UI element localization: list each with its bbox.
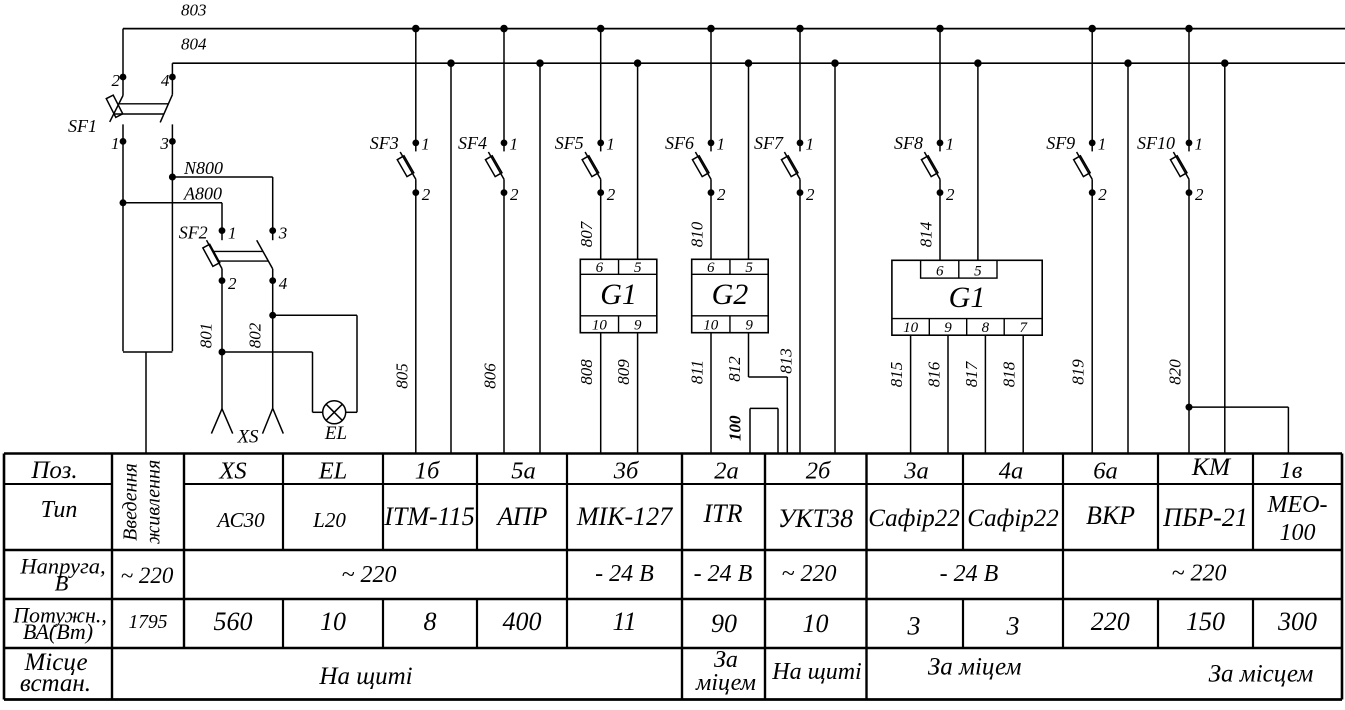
svg-text:~ 220: ~ 220 [782, 561, 837, 587]
svg-text:SF1: SF1 [68, 116, 97, 136]
svg-text:820: 820 [1166, 359, 1185, 385]
svg-text:SF10: SF10 [1137, 133, 1175, 153]
wire A800 [123, 203, 222, 231]
svg-text:G2: G2 [712, 278, 749, 311]
svg-text:SF9: SF9 [1046, 133, 1075, 153]
node SF2 pin 3 [269, 227, 276, 234]
svg-text:9: 9 [944, 320, 952, 336]
svg-text:5а: 5а [511, 458, 536, 485]
circuit breaker SF5 [582, 152, 601, 179]
wire 814 [939, 179, 941, 260]
junction on wire 801 [219, 349, 226, 356]
wire SF1 pole2 feed from 803 [122, 29, 124, 96]
junction bus 804 x637 [634, 59, 642, 67]
svg-text:EL: EL [318, 458, 348, 485]
svg-text:живлення: живлення [143, 460, 165, 545]
circuit breaker SF6 [692, 152, 711, 179]
wire 810 [710, 179, 712, 259]
svg-text:10: 10 [703, 318, 719, 334]
junction bus 803 x600 [597, 25, 605, 33]
svg-text:Сафір22: Сафір22 [868, 505, 960, 532]
wire 819 [1091, 179, 1093, 453]
junction bus 804 x835 [831, 59, 839, 67]
wire 817 [984, 335, 986, 453]
wire return drop to KM [1224, 63, 1226, 453]
svg-text:801: 801 [197, 323, 216, 349]
svg-text:- 24 В: - 24 В [595, 561, 654, 587]
svg-text:1795: 1795 [129, 612, 168, 633]
svg-text:1: 1 [111, 134, 120, 153]
svg-text:3: 3 [159, 134, 169, 153]
svg-text:6: 6 [707, 260, 715, 276]
svg-text:Введення: Введення [120, 463, 142, 541]
svg-text:814: 814 [917, 221, 936, 247]
wire 805 [415, 179, 417, 453]
svg-text:817: 817 [962, 360, 981, 387]
svg-text:815: 815 [887, 362, 906, 388]
svg-text:ІТМ-115: ІТМ-115 [383, 502, 475, 531]
device G2 box [692, 259, 769, 332]
node SF4 pin 1 [501, 140, 508, 147]
wire return drop to 2b [834, 63, 836, 453]
junction bus 803 x1189 [1185, 25, 1193, 33]
svg-text:10: 10 [903, 320, 919, 336]
svg-text:G1: G1 [600, 278, 637, 311]
circuit breaker SF7 [781, 152, 800, 179]
circuit breaker SF3 [397, 152, 416, 179]
svg-text:2: 2 [1195, 185, 1204, 204]
wire bus 804 [172, 62, 1345, 64]
svg-text:2: 2 [946, 185, 955, 204]
svg-text:За місцем: За місцем [1209, 661, 1314, 688]
svg-text:SF2: SF2 [179, 223, 208, 243]
svg-text:МЕО-: МЕО- [1267, 492, 1328, 518]
svg-text:1: 1 [946, 135, 955, 154]
svg-text:11: 11 [612, 607, 636, 636]
circuit breaker SF8 [921, 152, 940, 179]
junction bus 803 x711 [707, 25, 715, 33]
wire SF5 feed from 803 [600, 29, 602, 152]
svg-text:5: 5 [745, 260, 753, 276]
node SF8 pin 1 [937, 140, 944, 147]
svg-text:2: 2 [1098, 185, 1107, 204]
svg-text:802: 802 [246, 322, 265, 348]
junction bus 803 x800 [796, 25, 804, 33]
wire 809 [637, 333, 639, 454]
junction on wire 802 [269, 312, 276, 319]
wire return drop to 5a [539, 63, 541, 453]
svg-text:ПБР-21: ПБР-21 [1162, 503, 1248, 532]
wire SF9 feed from 803 [1091, 29, 1093, 152]
svg-text:809: 809 [614, 359, 633, 385]
circuit breaker SF9 [1074, 152, 1093, 179]
svg-text:Сафір22: Сафір22 [967, 505, 1059, 532]
svg-text:1: 1 [717, 135, 726, 154]
svg-text:806: 806 [481, 363, 500, 389]
svg-text:810: 810 [688, 221, 707, 247]
circuit breaker SF10 [1170, 152, 1189, 179]
svg-text:2: 2 [422, 185, 431, 204]
svg-text:100: 100 [1280, 520, 1316, 546]
node SF5 pin 2 [597, 189, 604, 196]
svg-text:встан.: встан. [20, 670, 91, 697]
svg-text:560: 560 [214, 607, 253, 636]
svg-text:КМ: КМ [1191, 452, 1232, 481]
svg-text:АПР: АПР [496, 502, 548, 531]
wire 820 [1188, 179, 1190, 453]
svg-text:~ 220: ~ 220 [1172, 561, 1227, 587]
svg-text:4а: 4а [999, 458, 1024, 485]
circuit breaker SF2 [203, 231, 273, 269]
junction bus 804 x540 [536, 59, 544, 67]
svg-text:2: 2 [607, 185, 616, 204]
svg-text:XS: XS [218, 458, 246, 485]
svg-text:G1: G1 [949, 281, 986, 314]
svg-text:4: 4 [279, 274, 288, 293]
table row: power [12, 603, 1317, 645]
junction bus 804 x977 [974, 59, 982, 67]
node SF10 pin 1 [1186, 140, 1193, 147]
svg-text:220: 220 [1091, 607, 1130, 636]
junction bus 804 x451 [447, 59, 455, 67]
wire return drop to 6a [1127, 63, 1129, 453]
wire SF7 feed from 803 [799, 29, 801, 152]
node SF2 pin 2 [219, 277, 226, 284]
svg-text:1: 1 [510, 135, 519, 154]
svg-text:10: 10 [592, 318, 608, 334]
wire SF4 feed from 803 [503, 29, 505, 152]
svg-text:SF8: SF8 [894, 133, 923, 153]
svg-text:ВКР: ВКР [1086, 501, 1135, 530]
svg-text:803: 803 [181, 0, 207, 19]
wire return drop to 1b [450, 63, 452, 453]
svg-text:SF5: SF5 [555, 133, 584, 153]
svg-text:819: 819 [1069, 359, 1088, 385]
node SF6 pin 2 [708, 189, 715, 196]
svg-text:1: 1 [606, 135, 615, 154]
wire 820 branch to MEO [1189, 407, 1288, 453]
svg-text:812: 812 [725, 356, 744, 382]
svg-text:ITR: ITR [703, 499, 743, 528]
svg-text:SF7: SF7 [754, 133, 784, 153]
svg-text:1б: 1б [415, 458, 440, 485]
svg-text:9: 9 [745, 318, 753, 334]
wire 801 branch to lamp [222, 352, 323, 412]
svg-text:1: 1 [1195, 135, 1204, 154]
svg-text:SF6: SF6 [665, 133, 694, 153]
junction bus 804 x1128 [1124, 59, 1132, 67]
svg-text:5: 5 [634, 260, 642, 276]
junction bus 803 x504 [500, 25, 508, 33]
wire 818 [1022, 335, 1024, 453]
svg-text:8: 8 [982, 320, 990, 336]
svg-text:807: 807 [577, 220, 596, 247]
junction bus 804 x748 [745, 59, 753, 67]
svg-text:400: 400 [503, 607, 542, 636]
svg-text:За міцем: За міцем [928, 654, 1022, 681]
node SF7 pin 1 [797, 140, 804, 147]
svg-text:6: 6 [596, 260, 604, 276]
device G1 box [580, 259, 657, 332]
wire N800 [172, 177, 272, 231]
svg-text:Тип: Тип [41, 497, 78, 523]
svg-text:ВА(Вт): ВА(Вт) [23, 619, 93, 644]
wire return drop to G2 pin5 [748, 63, 750, 259]
node SF9 pin 2 [1089, 189, 1096, 196]
node SF5 pin 1 [597, 140, 604, 147]
wire 802 [272, 269, 274, 408]
wire input left drop [122, 124, 124, 351]
svg-text:2: 2 [717, 185, 726, 204]
svg-text:90: 90 [711, 609, 737, 638]
svg-text:В: В [55, 571, 69, 596]
svg-text:2: 2 [510, 185, 519, 204]
svg-text:2: 2 [228, 274, 237, 293]
svg-text:1: 1 [421, 135, 430, 154]
junction bus 803 x940 [936, 25, 944, 33]
wire 802 branch to lamp [273, 315, 357, 412]
wire 806 [503, 179, 505, 453]
svg-text:2а: 2а [714, 458, 739, 485]
svg-text:813: 813 [777, 348, 796, 374]
svg-text:XS: XS [236, 427, 259, 448]
svg-text:6: 6 [936, 263, 944, 279]
svg-text:10: 10 [320, 607, 346, 636]
svg-text:АС30: АС30 [215, 508, 265, 532]
wire 808 [600, 333, 602, 454]
svg-text:150: 150 [1186, 607, 1225, 636]
svg-text:818: 818 [1000, 361, 1019, 387]
node SF3 pin 1 [412, 140, 419, 147]
svg-text:10: 10 [803, 609, 829, 638]
wire SF1 pole4 feed from 804 [171, 63, 173, 94]
wire 811 [710, 333, 712, 454]
node SF8 pin 2 [937, 189, 944, 196]
svg-text:1в: 1в [1280, 457, 1303, 484]
svg-text:9: 9 [634, 318, 642, 334]
table row: position designators [30, 452, 1302, 485]
node SF1 pin 1 [120, 138, 127, 145]
node SF2 pin 1 [219, 227, 226, 234]
svg-text:УКТ38: УКТ38 [778, 504, 853, 533]
svg-text:3а: 3а [903, 458, 929, 485]
svg-text:100: 100 [726, 415, 745, 441]
table row: device types [41, 492, 1328, 546]
junction on wire 820 [1186, 404, 1193, 411]
svg-text:6а: 6а [1093, 458, 1118, 485]
table grid [4, 454, 1342, 700]
node SF6 pin 1 [708, 140, 715, 147]
svg-text:~ 220: ~ 220 [121, 563, 174, 588]
svg-text:1: 1 [1098, 135, 1107, 154]
svg-text:2: 2 [806, 185, 815, 204]
node SF1 pin 4 [169, 74, 176, 81]
wire 801 [221, 269, 223, 409]
node SF7 pin 2 [797, 189, 804, 196]
svg-text:4: 4 [161, 71, 170, 90]
svg-text:МІК-127: МІК-127 [576, 502, 673, 531]
svg-text:5: 5 [974, 263, 982, 279]
wire 807 [600, 179, 602, 259]
junction bus 804 x1224 [1221, 59, 1229, 67]
svg-text:L20: L20 [312, 508, 346, 532]
wire 815 [910, 335, 912, 453]
svg-text:SF4: SF4 [458, 133, 487, 153]
wire input bottom bar [123, 351, 172, 353]
svg-text:1: 1 [806, 135, 815, 154]
circuit breaker SF4 [485, 152, 504, 179]
wire 816 [947, 335, 949, 453]
junction on right drop (N800 tap) [169, 174, 176, 181]
device G1 (Safir) box [892, 260, 1042, 335]
svg-text:805: 805 [392, 363, 411, 389]
svg-text:300: 300 [1277, 607, 1317, 636]
node SF3 pin 2 [412, 189, 419, 196]
svg-text:811: 811 [688, 360, 707, 384]
wire SF10 feed from 803 [1188, 29, 1190, 152]
junction on left drop (A800 tap) [120, 199, 127, 206]
svg-text:2: 2 [112, 71, 121, 90]
connector XS plug b [263, 408, 284, 433]
svg-text:804: 804 [181, 35, 207, 54]
wire return drop to G1 big pin5 [977, 63, 979, 260]
junction bus 803 x415 [412, 25, 420, 33]
svg-text:2б: 2б [806, 458, 831, 485]
node SF1 pin 2 [120, 74, 127, 81]
svg-text:- 24 В: - 24 В [694, 561, 753, 587]
wire SF8 feed from 803 [939, 29, 941, 152]
wire 812 [749, 333, 788, 454]
wire return drop to G1 pin5 [637, 63, 639, 259]
svg-text:1: 1 [228, 224, 237, 243]
circuit breaker SF1 [106, 95, 172, 123]
node SF4 pin 2 [501, 189, 508, 196]
svg-text:3: 3 [278, 224, 288, 243]
svg-text:На щиті: На щиті [771, 659, 861, 685]
node SF10 pin 2 [1186, 189, 1193, 196]
wire SF6 feed from 803 [710, 29, 712, 152]
connector XS plug a [211, 409, 232, 434]
node SF9 pin 1 [1089, 140, 1096, 147]
wire input right drop [171, 124, 173, 351]
table row: voltage [19, 554, 1226, 596]
lamp EL [323, 401, 346, 424]
svg-text:808: 808 [577, 359, 596, 385]
svg-text:міцем: міцем [695, 670, 756, 696]
svg-text:816: 816 [925, 361, 944, 387]
svg-text:EL: EL [324, 423, 347, 444]
svg-text:- 24 В: - 24 В [940, 561, 999, 587]
wire 813 [799, 179, 801, 453]
svg-text:~ 220: ~ 220 [342, 562, 397, 588]
node SF1 pin 3 [169, 138, 176, 145]
svg-text:8: 8 [424, 607, 437, 636]
wire power input feeder to table [145, 352, 147, 454]
table row: mounting place [20, 647, 1313, 697]
junction bus 803 x1092 [1088, 25, 1096, 33]
svg-text:SF3: SF3 [370, 133, 399, 153]
svg-text:Поз.: Поз. [30, 457, 77, 484]
svg-text:A800: A800 [183, 183, 222, 203]
component 100 box [750, 408, 778, 453]
wire bus 803 [123, 28, 1345, 30]
svg-text:3б: 3б [613, 458, 639, 485]
node SF2 pin 4 [269, 277, 276, 284]
svg-text:3: 3 [907, 612, 921, 641]
svg-text:N800: N800 [183, 158, 223, 178]
svg-text:На щиті: На щиті [318, 663, 412, 690]
svg-text:3: 3 [1006, 612, 1020, 641]
wire SF3 feed from 803 [415, 29, 417, 152]
